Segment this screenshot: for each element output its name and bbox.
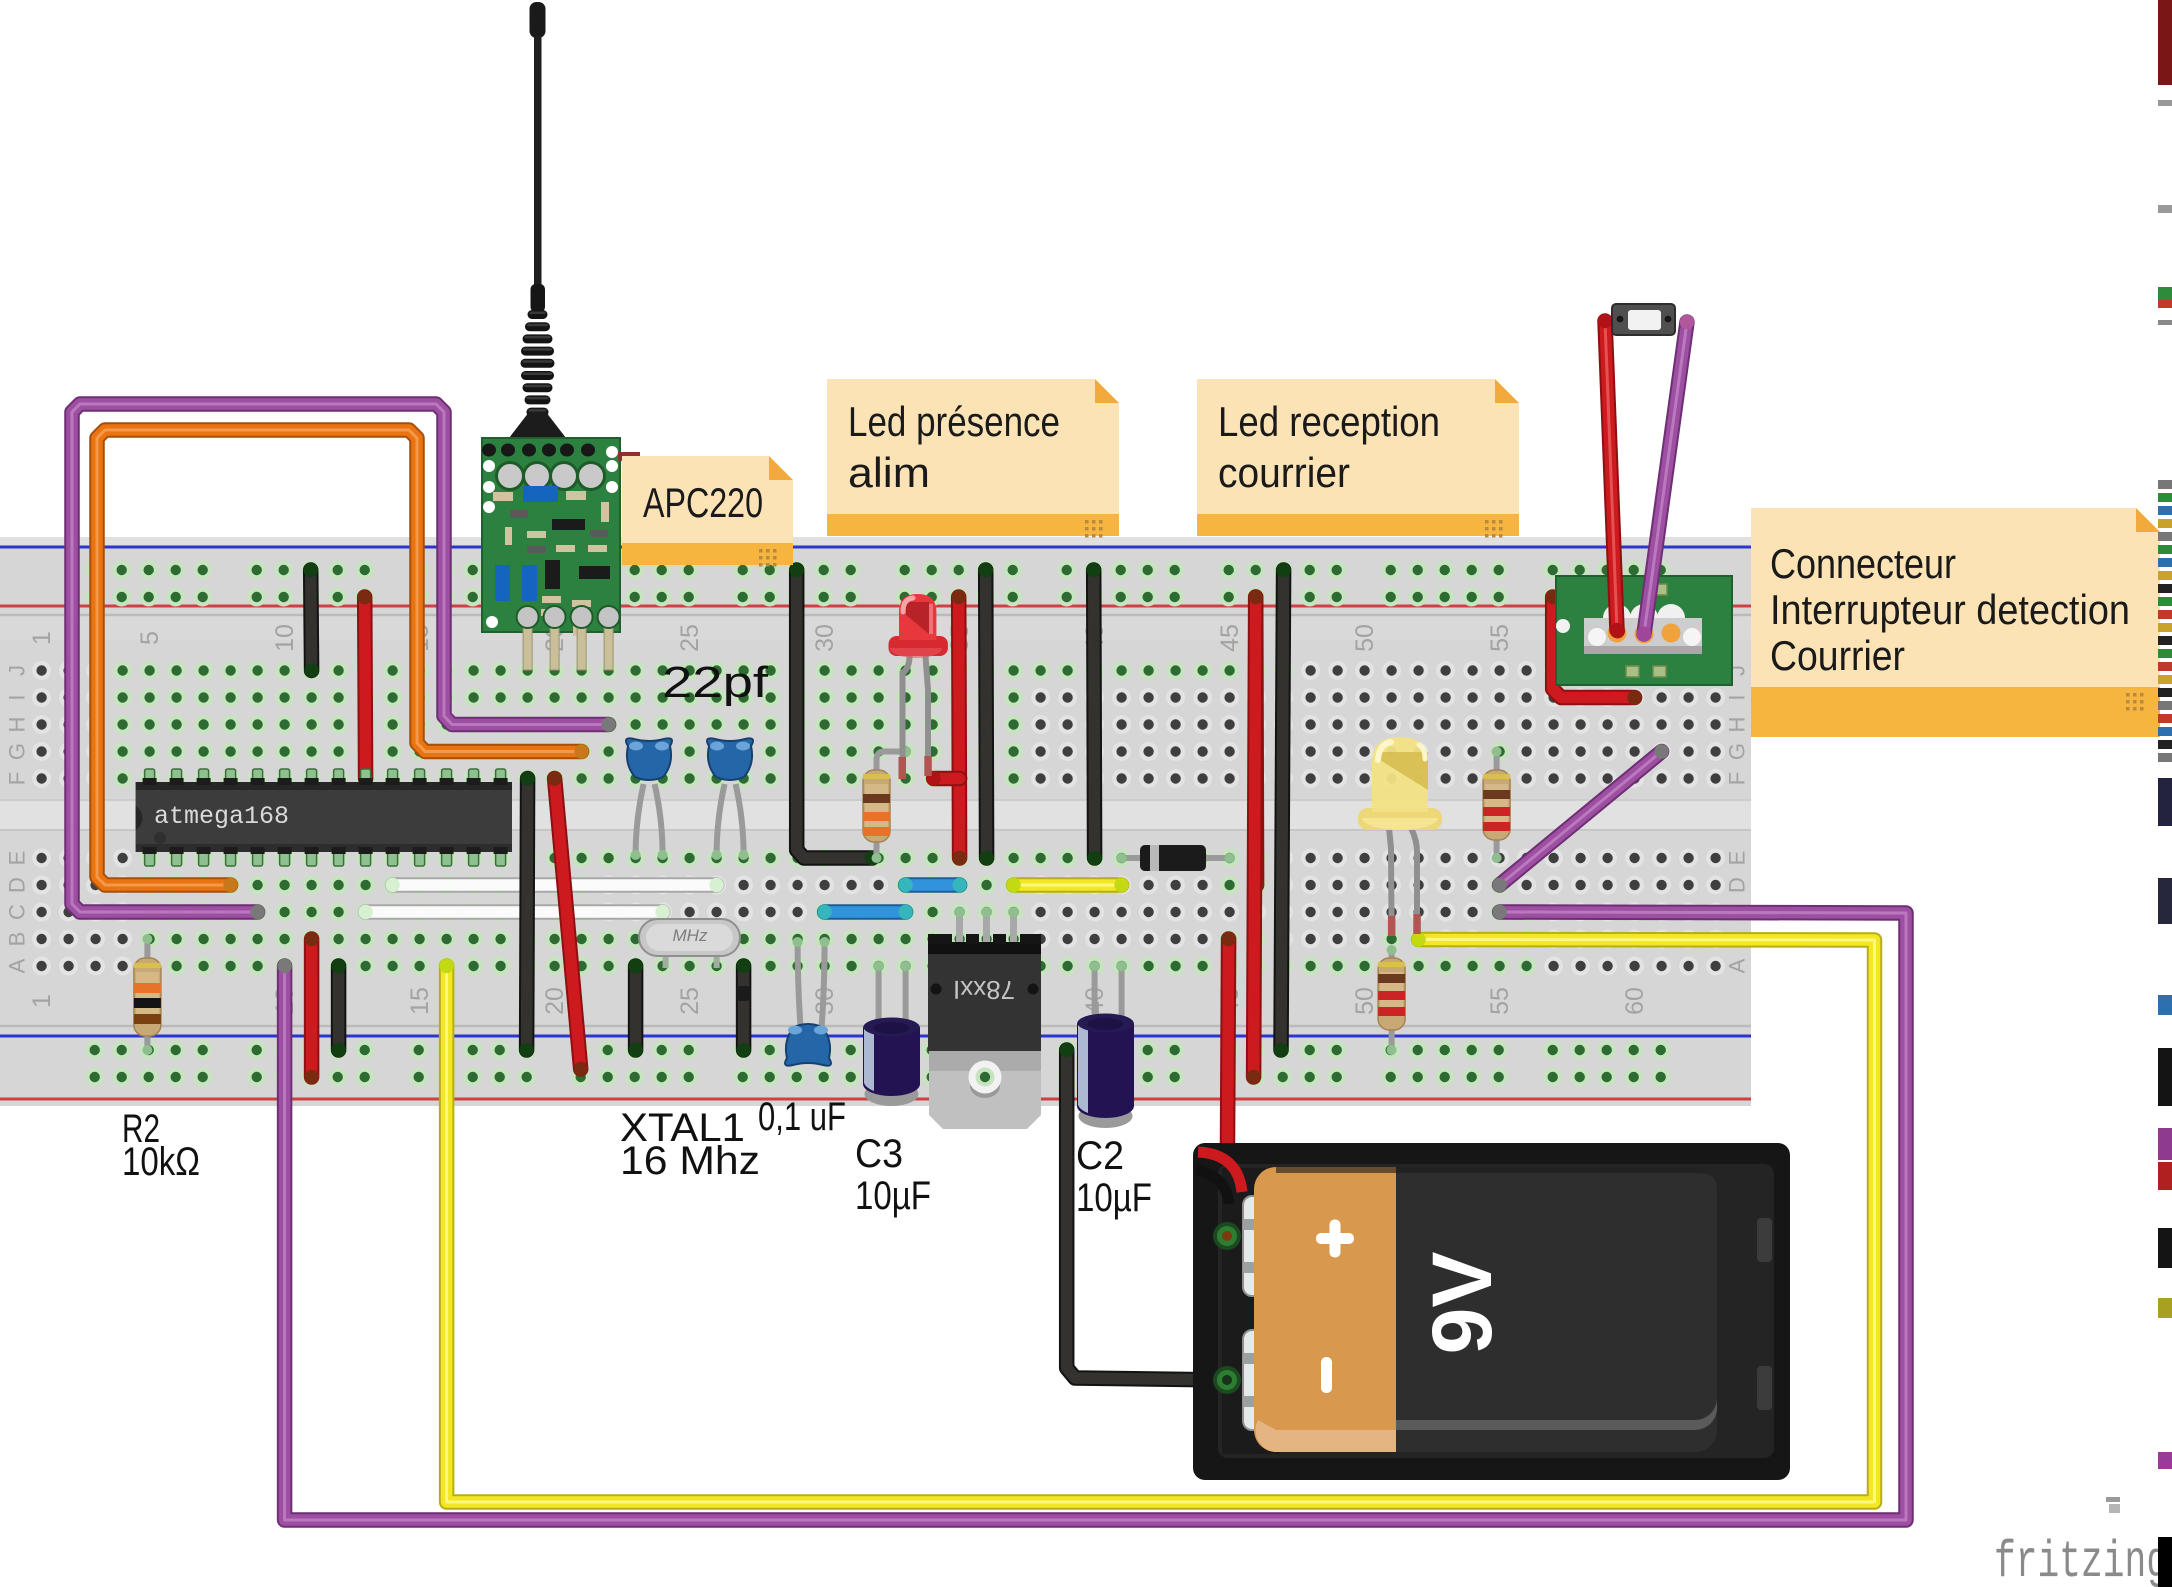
wire purple A16 riser is part of loop; black A23 to rail1 bottom [628, 959, 642, 1057]
svg-text:25: 25 [676, 624, 704, 652]
right edge palette strip [2158, 0, 2172, 1587]
svg-text:0,1 uF: 0,1 uF [758, 1095, 846, 1139]
resistor R2 10k [134, 934, 161, 1055]
svg-text:60: 60 [1621, 987, 1649, 1015]
svg-text:APC220: APC220 [643, 479, 763, 526]
label C3 10uF [855, 1132, 931, 1218]
svg-text:Led présence: Led présence [848, 398, 1060, 445]
svg-text:1: 1 [28, 631, 56, 645]
svg-text:22pf: 22pf [662, 658, 769, 707]
resistor near yellow LED (G55-E55) [1483, 747, 1510, 864]
wire red rail2 to I60 (connector feed) [1546, 590, 1642, 705]
breadboard terminal strip holes [32, 661, 1725, 976]
svg-text:20: 20 [541, 987, 569, 1015]
wire orange D8 to G21 (left loop) [97, 430, 589, 892]
svg-text:10: 10 [271, 624, 299, 652]
svg-text:F: F [5, 772, 30, 785]
svg-text:50: 50 [1351, 624, 1379, 652]
wire red F34 to rail (short bend) [926, 771, 959, 785]
svg-text:C2: C2 [1076, 1134, 1124, 1178]
wire black rail1 to J11 [304, 563, 319, 678]
breadboard column numbers [28, 624, 1649, 1015]
wire cap red on connector pad1 [1610, 624, 1625, 639]
svg-text:G: G [5, 743, 30, 760]
svg-text:H: H [5, 717, 30, 733]
battery 9V with holder [1193, 1143, 1790, 1480]
svg-text:I: I [1725, 694, 1750, 700]
connector PCB (interrupteur detection courrier) [1556, 576, 1732, 685]
svg-text:J: J [5, 665, 30, 676]
breadboard body [0, 537, 1751, 1106]
wire black rail1 bottom to battery minus [1060, 1043, 1235, 1387]
wire red B11 to rail2 bottom [304, 932, 318, 1084]
svg-text:C3: C3 [855, 1132, 903, 1176]
svg-text:D: D [1725, 877, 1750, 893]
wire cap purple on connector pad2 [1637, 627, 1652, 642]
breadboard power rail holes [85, 561, 1670, 1087]
svg-text:10µF: 10µF [1076, 1176, 1152, 1220]
capacitor 22pf #1 [626, 738, 672, 860]
svg-text:1: 1 [28, 994, 56, 1008]
svg-text:Interrupteur detection: Interrupteur detection [1770, 586, 2130, 633]
wire red rail2 to D46 [1249, 590, 1264, 892]
svg-text:B: B [5, 932, 30, 947]
wire red top rail2 to bottom rail2 (col46) [1246, 590, 1263, 1084]
svg-text:50: 50 [1351, 987, 1379, 1015]
svg-text:MHz: MHz [673, 926, 708, 945]
capacitor C3 10uF [863, 961, 920, 1106]
wire yellow D37 to D41 [1006, 878, 1128, 892]
wire yellow A16 to B52 (long bottom loop) [439, 932, 1874, 1502]
wire blue D33 to D35 [898, 878, 966, 892]
label XTAL1 16 Mhz [620, 1106, 760, 1183]
label C2 10uF [1076, 1134, 1152, 1220]
voltage regulator U2 78xx [928, 907, 1041, 1129]
svg-text:G: G [1725, 743, 1750, 760]
resistor for yellow LED [1378, 945, 1405, 1055]
wire black rail1 to E40 [1087, 563, 1102, 865]
LED yellow (reception courrier) [1358, 737, 1442, 936]
capacitor 22pf #2 [707, 738, 753, 860]
IC U1 atmega168 [136, 769, 512, 866]
svg-text:Connecteur: Connecteur [1770, 540, 1956, 587]
note: Connecteur Interrupteur detection Courrier [1751, 508, 2160, 737]
svg-text:atmega168: atmega168 [154, 802, 289, 831]
svg-text:fritzing: fritzing [1994, 1533, 2168, 1587]
wire white D14 to D26 [385, 878, 723, 892]
svg-text:C: C [5, 904, 30, 920]
wire black rail1 to E29 with bend to E32 [790, 563, 880, 865]
antenna (APC220) [509, 2, 566, 438]
svg-text:D: D [5, 877, 30, 893]
svg-text:Led reception: Led reception [1218, 398, 1440, 445]
resistor for red LED [863, 752, 906, 864]
svg-text:30: 30 [811, 624, 839, 652]
wire purple A10 to C55 (long bottom loop) [277, 905, 1906, 1520]
svg-text:A: A [5, 958, 30, 973]
note: APC220 [622, 456, 793, 567]
crystal XTAL1 16MHz [639, 919, 740, 968]
capacitor C2 10uF [1077, 961, 1134, 1128]
wire black A27 to rail1 bottom [736, 959, 750, 1057]
svg-text:78xxI: 78xxI [953, 975, 1015, 1005]
LED red (presence alim) [889, 594, 948, 779]
wire red switch to connector pad [1598, 314, 1624, 637]
svg-text:10kΩ: 10kΩ [122, 1140, 200, 1184]
breadboard row letters [5, 665, 1750, 973]
wire white C13 to C24 [358, 905, 669, 919]
wire red F20 to rail2 bottom (diagonal) [547, 771, 588, 1076]
svg-text:45: 45 [1216, 624, 1244, 652]
wire blue C30 to C33 [817, 905, 912, 919]
note: Led presence alim [827, 379, 1119, 538]
wire red rail2 to E35 [952, 590, 967, 865]
wire purple G61 to D55 (diagonal) [1492, 744, 1668, 892]
wire black F19 to rail1 bottom [519, 771, 534, 1057]
svg-text:F: F [1725, 772, 1750, 785]
svg-text:Courrier: Courrier [1770, 632, 1905, 679]
svg-text:A: A [1725, 958, 1750, 973]
svg-text:H: H [1725, 717, 1750, 733]
diode D3 [1117, 845, 1235, 871]
wire red B45 to battery plus [1220, 932, 1236, 1243]
wire black A12 to rail1 bottom [331, 959, 345, 1057]
wire purple C9 to H22 (big left loop) [72, 404, 616, 919]
svg-text:alim: alim [848, 449, 930, 496]
capacitor 0.1uF [785, 937, 831, 1066]
slide switch SW1 [1612, 304, 1675, 335]
svg-text:15: 15 [406, 987, 434, 1015]
svg-text:E: E [1725, 851, 1750, 866]
svg-text:55: 55 [1486, 624, 1514, 652]
wire black top rail1 to bottom rail1 (col47) [1274, 563, 1291, 1057]
svg-text:5: 5 [136, 631, 164, 645]
wire black rail1 to E36 [979, 563, 994, 865]
svg-text:16 Mhz: 16 Mhz [620, 1139, 760, 1183]
svg-text:10µF: 10µF [855, 1174, 931, 1218]
svg-text:courrier: courrier [1218, 449, 1350, 496]
small scrollbar mark near logo [2106, 1497, 2120, 1513]
svg-text:25: 25 [676, 987, 704, 1015]
label R2 10k [122, 1107, 200, 1184]
wire red rail2 to F13 [358, 590, 373, 786]
RF module APC220 PCB [482, 438, 640, 670]
note: Led reception courrier [1197, 379, 1519, 538]
svg-text:9V: 9V [1415, 1252, 1509, 1355]
svg-text:E: E [5, 851, 30, 866]
svg-text:55: 55 [1486, 987, 1514, 1015]
svg-text:I: I [5, 694, 30, 700]
wire purple switch to connector pad [1637, 315, 1694, 641]
